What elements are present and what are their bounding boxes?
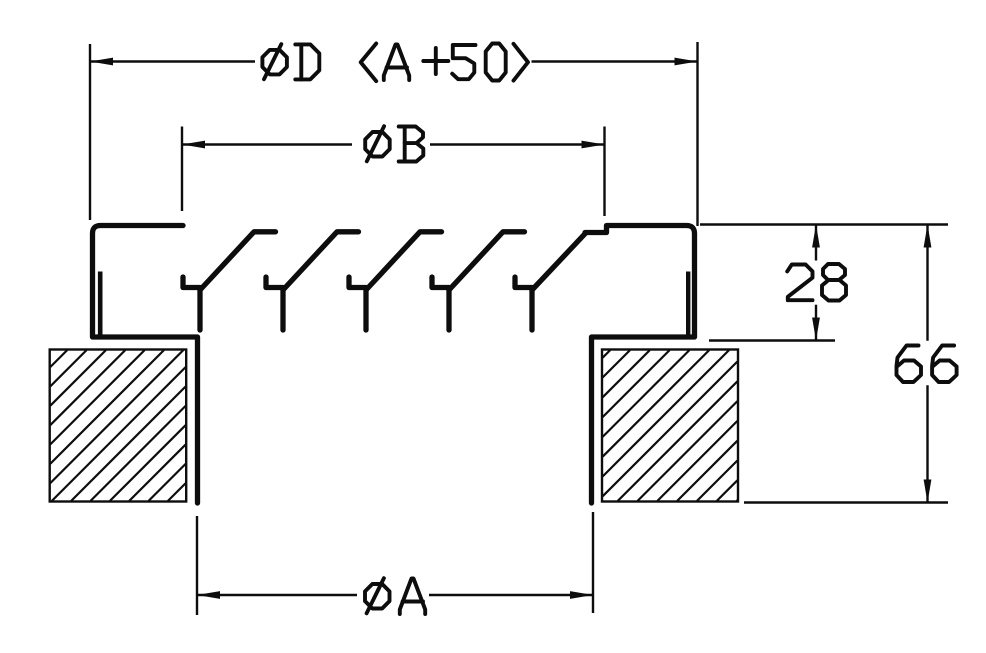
dimension 66 bottom extension line (744, 501, 948, 503)
frame left outer profile (93, 226, 198, 504)
louver blade 3 hook (349, 277, 366, 288)
hatched wall right (section) (602, 350, 738, 502)
dimension 66 arrow up (924, 225, 932, 248)
dimension 28 top extension line (700, 223, 948, 225)
louver blade 5 diagonal (532, 233, 586, 290)
louver blade 1 hook (183, 277, 200, 288)
dimension 28 bottom extension line (709, 339, 835, 341)
dimension ØB arrow left (182, 141, 205, 149)
louver blade 2 stem (280, 288, 285, 331)
louver blade 5 hook (515, 277, 532, 288)
louver blade 4 diagonal (449, 232, 525, 290)
dimension 66 arrow down (924, 480, 932, 503)
louver blade 4 stem (446, 288, 451, 331)
dimension ØB line (182, 143, 352, 145)
dimension 28 arrow down (812, 318, 820, 341)
louver blade 5 stem (529, 288, 534, 331)
frame left inner wall (98, 272, 103, 337)
label ØD (A+50) (262, 44, 528, 82)
dimension 28 line (815, 225, 817, 261)
dimension ØD (A+50) line (90, 60, 255, 62)
dimension 66 line (926, 225, 928, 341)
louver blade 3 diagonal (366, 232, 442, 290)
louver blade 1 diagonal (200, 232, 276, 290)
louver blade 1 stem (197, 288, 202, 331)
frame right inner wall (686, 272, 690, 337)
dimension ØD (A+50) extension line left (89, 44, 91, 220)
louver blade 4 hook (432, 277, 449, 288)
louver blade 2 diagonal (283, 232, 359, 290)
dimension 28 arrow up (812, 225, 820, 248)
dimension ØA extension line right (592, 512, 594, 613)
dimension ØD arrow right (675, 58, 698, 66)
hatched wall left (section) (50, 350, 187, 502)
dimension ØA arrow left (197, 591, 220, 599)
dimension ØB arrow right (582, 141, 605, 149)
dimension ØB extension line right (603, 127, 605, 217)
label 66 (897, 346, 957, 383)
dimension ØA line (197, 594, 357, 596)
dimension ØD (A+50) extension line right (696, 42, 698, 226)
dimension ØA extension line left (196, 516, 198, 615)
label ØA (365, 578, 425, 614)
dimension ØB extension line left (181, 127, 183, 212)
label ØB (365, 126, 423, 161)
frame right outer profile (585, 226, 695, 504)
dimension ØD arrow left (90, 58, 113, 66)
louver blade 3 stem (363, 288, 368, 331)
louver blade 2 hook (266, 277, 283, 288)
dimension ØA arrow right (570, 591, 593, 599)
label 28 (787, 264, 846, 301)
